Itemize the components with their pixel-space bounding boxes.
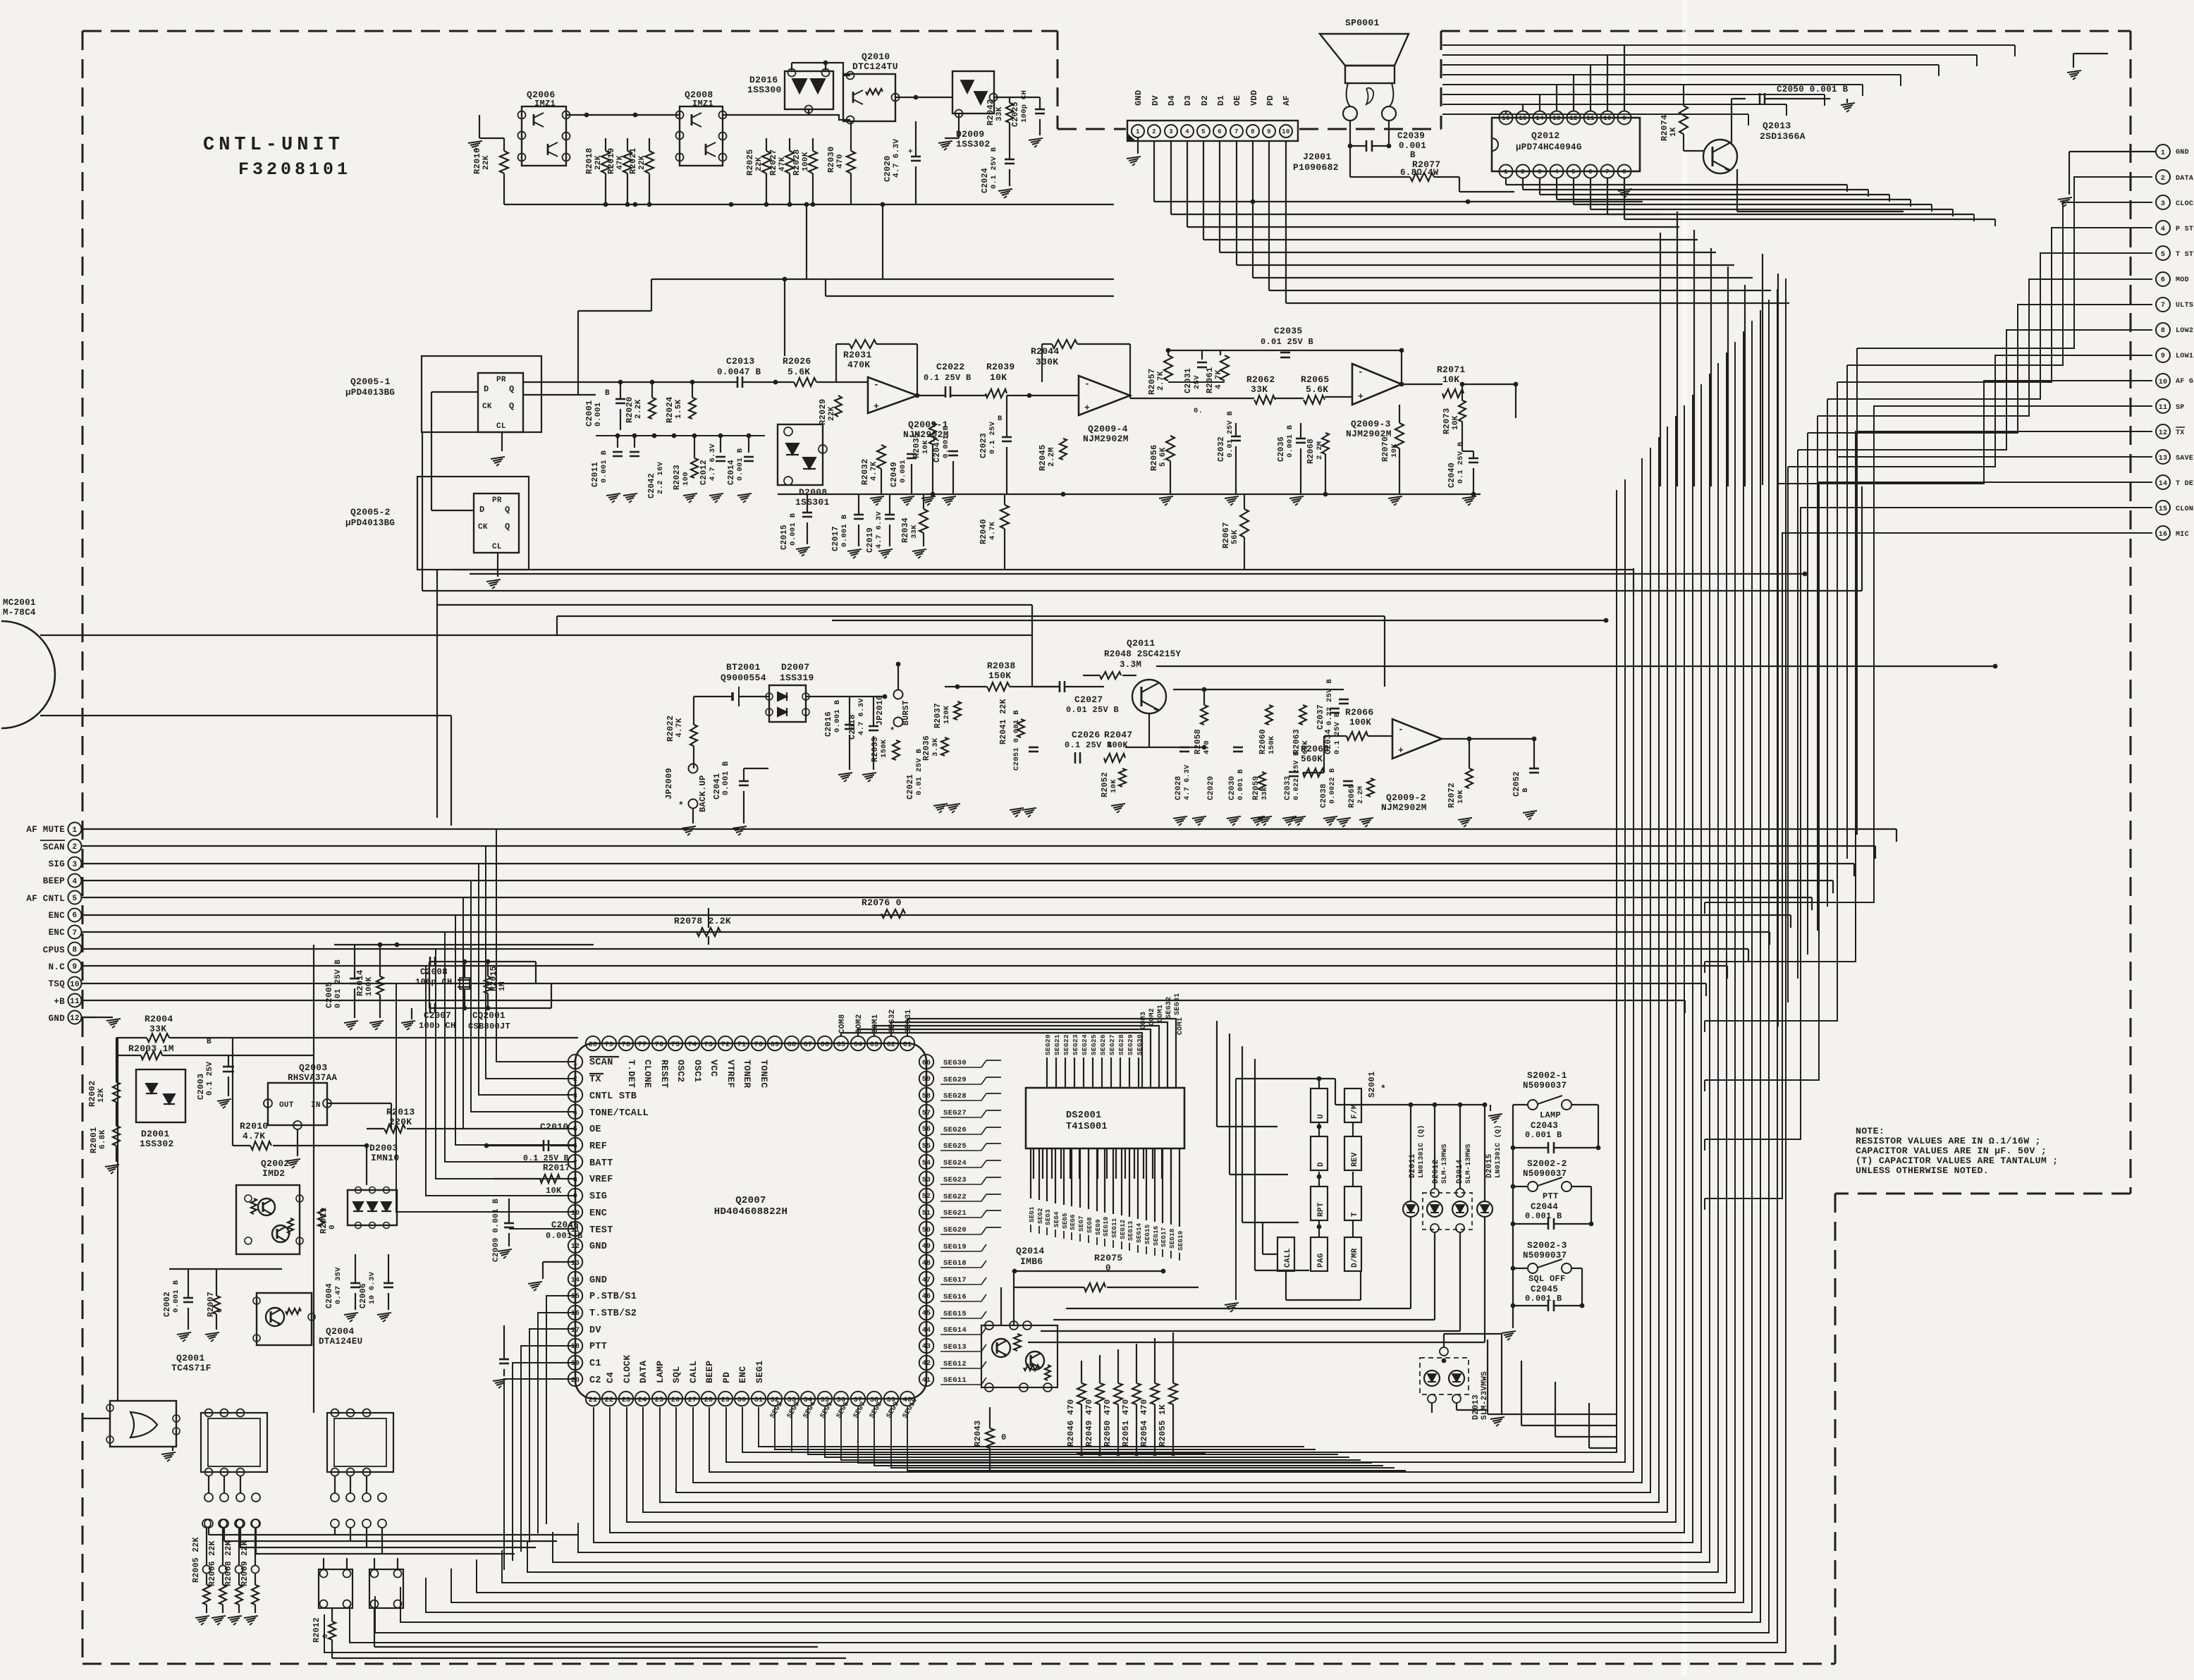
svg-text:D1: D1 (1216, 95, 1226, 106)
svg-text:R2067: R2067 (1221, 522, 1231, 548)
svg-text:D2013: D2013 (1471, 1394, 1481, 1420)
svg-text:R2012: R2012 (312, 1617, 321, 1643)
svg-text:GND: GND (1134, 90, 1144, 106)
svg-text:60: 60 (922, 1060, 931, 1067)
svg-text:MIC: MIC (2176, 531, 2189, 539)
svg-text:8: 8 (573, 1177, 577, 1184)
svg-text:13: 13 (1552, 115, 1560, 122)
svg-text:R2020: R2020 (625, 396, 635, 423)
svg-text:12: 12 (1569, 115, 1577, 122)
svg-text:5: 5 (2161, 251, 2165, 259)
svg-text:RESET: RESET (659, 1060, 670, 1089)
svg-text:+B: +B (54, 997, 65, 1007)
svg-text:SEG21: SEG21 (943, 1209, 967, 1218)
svg-text:CL: CL (492, 543, 502, 551)
svg-text:SEG16: SEG16 (943, 1293, 967, 1301)
svg-text:CAPACITOR VALUES ARE IN µF. 5: CAPACITOR VALUES ARE IN µF. 50V ; (1856, 1146, 2047, 1156)
svg-text:72: 72 (721, 1041, 730, 1049)
svg-text:SEG2: SEG2 (1037, 1208, 1044, 1224)
svg-text:69: 69 (771, 1041, 780, 1049)
svg-text:61: 61 (903, 1041, 912, 1049)
svg-text:Q2003: Q2003 (299, 1062, 328, 1073)
svg-text:OSC1: OSC1 (692, 1060, 703, 1082)
svg-text:R2027: R2027 (768, 149, 778, 176)
svg-text:6: 6 (573, 1143, 577, 1151)
svg-text:R2056: R2056 (1149, 444, 1159, 471)
svg-text:R2036: R2036 (922, 735, 931, 761)
svg-text:15: 15 (2159, 505, 2168, 513)
svg-text:C2021: C2021 (906, 774, 915, 799)
svg-text:13: 13 (2159, 455, 2168, 462)
svg-text:CL: CL (496, 422, 506, 431)
svg-text:R2063: R2063 (1292, 729, 1301, 754)
svg-text:R2034: R2034 (901, 517, 910, 543)
svg-text:1K: 1K (1669, 127, 1678, 137)
svg-text:LAMP: LAMP (655, 1361, 666, 1383)
svg-text:D4: D4 (1167, 95, 1177, 106)
svg-text:SEG20: SEG20 (1044, 1034, 1052, 1055)
svg-text:SEG14: SEG14 (1136, 1222, 1143, 1243)
svg-text:C2020: C2020 (883, 155, 893, 182)
svg-text:1SS301: 1SS301 (795, 497, 830, 508)
svg-text:4: 4 (2161, 226, 2165, 233)
svg-text:0.001 B: 0.001 B (546, 1231, 583, 1241)
svg-text:C1: C1 (589, 1359, 601, 1369)
svg-text:4.7 6.3V: 4.7 6.3V (709, 443, 717, 481)
svg-text:0: 0 (1001, 1433, 1007, 1442)
svg-text:SEG18: SEG18 (1169, 1228, 1176, 1249)
svg-text:N5090037: N5090037 (1523, 1251, 1567, 1261)
svg-text:SEG1: SEG1 (754, 1361, 765, 1383)
svg-text:CQ2001: CQ2001 (472, 1011, 505, 1021)
svg-text:ENC: ENC (589, 1208, 607, 1219)
svg-text:R2049 470: R2049 470 (1084, 1399, 1094, 1447)
svg-text:0.0022 B: 0.0022 B (1329, 768, 1337, 804)
svg-text:Q2005-1: Q2005-1 (350, 376, 391, 387)
svg-text:66: 66 (821, 1041, 830, 1049)
svg-text:SEG18: SEG18 (943, 1259, 967, 1268)
svg-text:SLM-13MWS: SLM-13MWS (1441, 1143, 1449, 1184)
svg-text:TX: TX (2176, 429, 2185, 437)
svg-text:IMD2: IMD2 (262, 1168, 285, 1179)
svg-text:C2014: C2014 (727, 460, 736, 485)
svg-text:C2035: C2035 (1274, 326, 1303, 336)
svg-text:R2072: R2072 (1447, 783, 1457, 808)
svg-text:0.001 B: 0.001 B (789, 513, 797, 546)
svg-text:R2019: R2019 (606, 147, 616, 174)
svg-text:0.001 B: 0.001 B (1286, 424, 1294, 458)
svg-text:Q2004: Q2004 (326, 1326, 355, 1337)
svg-text:10: 10 (1603, 115, 1611, 122)
svg-text:0.47 35V: 0.47 35V (334, 1267, 343, 1304)
svg-text:12: 12 (2159, 429, 2168, 437)
svg-text:9: 9 (1267, 128, 1271, 135)
svg-text:PTT: PTT (1543, 1191, 1559, 1201)
svg-text:R2052: R2052 (1101, 772, 1110, 797)
svg-text:SEG6: SEG6 (1070, 1214, 1077, 1230)
svg-text:20: 20 (571, 1377, 580, 1385)
svg-text:D3: D3 (1183, 95, 1193, 106)
svg-text:C2037: C2037 (1316, 704, 1325, 730)
svg-text:SP0001: SP0001 (1345, 18, 1380, 28)
svg-text:2.2M: 2.2M (1048, 447, 1056, 467)
svg-text:R2028: R2028 (792, 149, 802, 176)
svg-text:RPT: RPT (1317, 1202, 1325, 1217)
svg-text:0.001 B: 0.001 B (942, 425, 950, 458)
svg-text:SEG25: SEG25 (943, 1142, 967, 1151)
svg-text:ENC: ENC (49, 928, 66, 938)
svg-text:50: 50 (922, 1227, 931, 1234)
svg-text:R2013: R2013 (386, 1107, 415, 1117)
svg-text:1SS300: 1SS300 (747, 85, 782, 95)
svg-text:14: 14 (571, 1277, 580, 1284)
svg-text:R2022: R2022 (666, 715, 675, 742)
svg-text:46: 46 (922, 1293, 931, 1301)
svg-text:74: 74 (688, 1041, 697, 1049)
svg-text:7: 7 (573, 1160, 577, 1167)
svg-text:R2037: R2037 (933, 703, 943, 728)
svg-text:Q2012: Q2012 (1531, 130, 1560, 141)
svg-text:R2025: R2025 (745, 149, 755, 176)
svg-text:C2047: C2047 (933, 437, 942, 462)
svg-text:C2: C2 (589, 1375, 601, 1386)
svg-text:470K: 470K (847, 360, 870, 370)
svg-text:SEG15: SEG15 (1144, 1224, 1151, 1244)
svg-text:6: 6 (1588, 168, 1593, 176)
svg-text:C2027: C2027 (1074, 694, 1103, 705)
svg-text:70: 70 (754, 1041, 764, 1049)
svg-text:R2009 22K: R2009 22K (240, 1540, 250, 1586)
svg-text:CPUS: CPUS (43, 945, 65, 955)
svg-text:8: 8 (2161, 327, 2165, 335)
svg-text:Q2014: Q2014 (1016, 1246, 1045, 1256)
svg-text:SEG16: SEG16 (1153, 1225, 1160, 1246)
svg-text:100K: 100K (1349, 718, 1371, 728)
svg-text:22K: 22K (594, 155, 603, 170)
svg-text:SQL: SQL (671, 1366, 682, 1383)
svg-text:9: 9 (1622, 115, 1626, 122)
svg-text:9: 9 (73, 963, 78, 971)
svg-text:D2003: D2003 (369, 1143, 398, 1153)
svg-text:17: 17 (571, 1327, 580, 1335)
svg-text:T.STB/S2: T.STB/S2 (589, 1308, 637, 1319)
svg-text:C2031: C2031 (1184, 368, 1193, 393)
svg-text:BEEP: BEEP (704, 1361, 715, 1383)
svg-text:R2044: R2044 (1031, 346, 1060, 357)
svg-text:0.1 25V B: 0.1 25V B (990, 147, 998, 189)
svg-text:-: - (874, 379, 879, 390)
svg-text:3.3K: 3.3K (931, 737, 940, 756)
svg-text:CNTL-UNIT: CNTL-UNIT (203, 135, 344, 156)
svg-text:TONE/TCALL: TONE/TCALL (589, 1108, 649, 1119)
svg-text:LOW1: LOW1 (2176, 352, 2193, 360)
svg-text:SEG17: SEG17 (1160, 1227, 1168, 1247)
svg-text:DTA124EU: DTA124EU (319, 1337, 362, 1347)
svg-text:5: 5 (1201, 128, 1206, 135)
svg-text:73: 73 (704, 1041, 713, 1049)
svg-text:7: 7 (2161, 302, 2165, 309)
svg-text:R2050 470: R2050 470 (1103, 1399, 1113, 1447)
svg-text:R2062: R2062 (1246, 374, 1275, 385)
svg-text:0.1 25V: 0.1 25V (988, 421, 997, 454)
svg-text:3: 3 (1538, 168, 1542, 176)
svg-text:LN01301C (Q): LN01301C (Q) (1494, 1124, 1502, 1178)
svg-text:49: 49 (922, 1243, 931, 1251)
svg-text:DTC124TU: DTC124TU (852, 61, 898, 72)
svg-text:150K: 150K (880, 739, 888, 758)
svg-text:0.001: 0.001 (899, 460, 907, 483)
svg-text:R2055 1K: R2055 1K (1158, 1404, 1168, 1447)
svg-text:SEG13: SEG13 (943, 1343, 967, 1351)
svg-text:C2036: C2036 (1277, 436, 1286, 462)
svg-text:HD404608822H: HD404608822H (714, 1206, 787, 1218)
svg-text:GND: GND (589, 1241, 607, 1252)
svg-text:54: 54 (922, 1160, 931, 1167)
svg-text:VCC: VCC (709, 1060, 719, 1077)
svg-text:D/MR: D/MR (1351, 1248, 1359, 1268)
svg-text:SQL OFF: SQL OFF (1528, 1274, 1566, 1284)
svg-text:J2001: J2001 (1303, 152, 1332, 162)
svg-text:GND: GND (2176, 149, 2189, 157)
svg-text:D2007: D2007 (781, 662, 810, 673)
svg-text:10K: 10K (1457, 790, 1465, 804)
svg-text:SEG25: SEG25 (1090, 1034, 1098, 1055)
svg-text:1SS302: 1SS302 (140, 1139, 174, 1149)
svg-text:F3208101: F3208101 (238, 159, 351, 180)
svg-text:4: 4 (1555, 168, 1559, 176)
svg-text:0.001 B: 0.001 B (1525, 1130, 1562, 1140)
svg-text:VTREF: VTREF (725, 1060, 736, 1089)
svg-text:3.3M: 3.3M (1120, 660, 1141, 670)
svg-text:0.1 25V: 0.1 25V (206, 1062, 214, 1096)
svg-text:64: 64 (854, 1041, 863, 1049)
svg-text:0.001 B: 0.001 B (600, 450, 608, 483)
svg-text:P.STB/S1: P.STB/S1 (589, 1292, 637, 1302)
svg-text:PD: PD (721, 1372, 732, 1383)
svg-text:0: 0 (329, 1225, 337, 1230)
svg-text:DATA: DATA (2176, 175, 2193, 183)
svg-text:D2009: D2009 (956, 129, 985, 140)
svg-text:COM2: COM2 (1148, 1008, 1156, 1026)
svg-text:C2022: C2022 (936, 362, 965, 372)
svg-text:68: 68 (787, 1041, 797, 1049)
svg-text:D2001: D2001 (141, 1129, 170, 1139)
svg-text:SEG3: SEG3 (1045, 1209, 1052, 1225)
svg-text:SEG32: SEG32 (1165, 996, 1173, 1019)
svg-text:R2065: R2065 (1301, 374, 1330, 385)
svg-text:57: 57 (922, 1110, 931, 1117)
svg-text:7: 7 (1605, 168, 1610, 176)
svg-text:Q2010: Q2010 (862, 51, 890, 62)
svg-text:-: - (1398, 724, 1404, 735)
svg-text:*: * (890, 726, 895, 736)
svg-text:0.001 B: 0.001 B (722, 761, 730, 795)
svg-text:SEG31: SEG31 (1174, 993, 1182, 1015)
svg-text:63: 63 (870, 1041, 879, 1049)
svg-text:AF MUTE: AF MUTE (26, 825, 65, 835)
svg-text:5: 5 (73, 895, 78, 903)
svg-text:R2048 2SC4215Y: R2048 2SC4215Y (1104, 649, 1181, 659)
svg-text:0.001: 0.001 (594, 402, 603, 427)
svg-text:T: T (1351, 1212, 1359, 1217)
svg-text:ENC: ENC (49, 911, 66, 921)
svg-text:4: 4 (73, 878, 78, 886)
svg-text:COM3: COM3 (1140, 1012, 1148, 1029)
svg-text:B: B (207, 1038, 212, 1046)
svg-text:2.2K: 2.2K (635, 399, 643, 419)
svg-text:6: 6 (1218, 128, 1222, 135)
svg-text:CLOCK: CLOCK (622, 1354, 632, 1383)
svg-text:56: 56 (922, 1126, 931, 1134)
svg-text:78: 78 (622, 1041, 631, 1049)
svg-text:7: 7 (73, 929, 78, 938)
svg-text:SEG9: SEG9 (1095, 1219, 1102, 1235)
svg-text:R2001: R2001 (89, 1127, 99, 1153)
svg-text:+: + (1358, 391, 1363, 402)
svg-text:C2009 0.001 B: C2009 0.001 B (492, 1198, 501, 1262)
svg-text:N5090037: N5090037 (1523, 1081, 1567, 1091)
svg-text:6: 6 (73, 912, 78, 920)
svg-text:R2021: R2021 (628, 147, 638, 174)
svg-text:C2042: C2042 (647, 473, 656, 498)
svg-text:4: 4 (573, 1110, 577, 1117)
svg-text:VREF: VREF (589, 1175, 613, 1185)
svg-text:D2011: D2011 (1409, 1153, 1417, 1178)
svg-text:SEG14: SEG14 (943, 1326, 967, 1335)
svg-text:C2013: C2013 (726, 356, 755, 367)
svg-text:Q2002: Q2002 (261, 1158, 290, 1169)
svg-text:100K: 100K (802, 152, 810, 171)
svg-text:R2041 22K: R2041 22K (999, 699, 1008, 744)
svg-text:1M: 1M (498, 981, 507, 991)
svg-text:AF: AF (1282, 95, 1292, 106)
svg-text:PD: PD (1265, 95, 1275, 106)
svg-text:TX: TX (589, 1074, 601, 1085)
svg-text:D: D (479, 505, 485, 515)
svg-text:MC2001: MC2001 (3, 598, 36, 608)
svg-text:C2029: C2029 (1207, 775, 1215, 800)
svg-text:C2033: C2033 (1284, 775, 1292, 800)
svg-text:1: 1 (2161, 149, 2165, 157)
svg-text:CLONE: CLONE (642, 1060, 653, 1089)
svg-text:LAMP: LAMP (1540, 1110, 1561, 1120)
svg-text:3: 3 (1169, 128, 1173, 135)
svg-text:0.1 25V B: 0.1 25V B (924, 373, 972, 383)
svg-text:1: 1 (1136, 128, 1140, 135)
svg-text:1: 1 (573, 1060, 577, 1067)
svg-text:33K: 33K (910, 525, 919, 539)
svg-text:10K: 10K (1442, 374, 1459, 385)
svg-text:COM1: COM1 (871, 1014, 880, 1034)
svg-text:0.: 0. (1194, 407, 1203, 415)
svg-text:R2068: R2068 (1306, 439, 1316, 464)
svg-text:T41S001: T41S001 (1066, 1122, 1108, 1132)
svg-text:C2015: C2015 (780, 525, 789, 550)
svg-text:R2008 22K: R2008 22K (224, 1540, 233, 1586)
svg-text:3: 3 (2161, 200, 2165, 208)
svg-text:Q9000554: Q9000554 (721, 673, 766, 683)
svg-text:R2005 22K: R2005 22K (192, 1537, 201, 1583)
svg-text:23: 23 (622, 1397, 631, 1404)
svg-text:C2028: C2028 (1175, 775, 1183, 800)
svg-text:ULTS: ULTS (2176, 302, 2193, 309)
svg-text:R2029: R2029 (818, 398, 828, 425)
svg-text:JP2009: JP2009 (664, 768, 674, 799)
svg-text:Q2001: Q2001 (176, 1353, 205, 1363)
svg-text:100K: 100K (365, 976, 374, 996)
svg-text:CK: CK (482, 403, 492, 411)
svg-text:R2004: R2004 (145, 1014, 173, 1024)
svg-text:SEG23: SEG23 (943, 1176, 967, 1184)
svg-text:10K: 10K (990, 372, 1007, 383)
svg-text:55: 55 (922, 1143, 931, 1151)
svg-text:NOTE:: NOTE: (1856, 1126, 1884, 1136)
svg-text:S2002-2: S2002-2 (1527, 1158, 1567, 1169)
svg-text:Q: Q (505, 505, 510, 515)
svg-text:C2018: C2018 (848, 714, 857, 740)
svg-text:4.7K: 4.7K (870, 461, 878, 481)
svg-text:43: 43 (922, 1343, 931, 1351)
svg-text:51: 51 (922, 1210, 931, 1218)
svg-text:CSB800JT: CSB800JT (468, 1022, 510, 1031)
svg-text:C2002: C2002 (163, 1292, 172, 1317)
svg-text:77: 77 (638, 1041, 647, 1049)
svg-text:R2033: R2033 (871, 737, 880, 762)
svg-text:SEG4: SEG4 (1053, 1211, 1060, 1227)
svg-text:R2047: R2047 (1104, 730, 1133, 740)
svg-text:0.1 25V B: 0.1 25V B (1333, 712, 1342, 754)
svg-text:B: B (1410, 150, 1416, 160)
svg-text:TEST: TEST (589, 1225, 613, 1236)
svg-text:19: 19 (571, 1360, 580, 1368)
svg-text:SEG13: SEG13 (1127, 1220, 1134, 1241)
svg-text:R2030: R2030 (826, 146, 836, 173)
svg-text:4.7 6.3V: 4.7 6.3V (1184, 765, 1191, 800)
svg-text:R2018: R2018 (584, 147, 594, 174)
svg-text:+: + (908, 148, 913, 157)
svg-text:R2058: R2058 (1194, 729, 1203, 754)
svg-text:560K: 560K (1301, 754, 1323, 764)
svg-text:3: 3 (73, 861, 78, 869)
svg-text:SEG29: SEG29 (1127, 1034, 1134, 1055)
svg-text:SP: SP (2176, 404, 2185, 412)
svg-text:µPD74HC4094G: µPD74HC4094G (1516, 142, 1582, 152)
svg-text:120K: 120K (943, 705, 951, 724)
svg-text:U: U (1317, 1114, 1325, 1119)
svg-text:10K: 10K (921, 440, 930, 454)
svg-text:GND: GND (589, 1275, 607, 1286)
svg-text:SEG20: SEG20 (943, 1226, 967, 1234)
svg-text:NJM2902M: NJM2902M (1381, 802, 1427, 813)
svg-text:R2003 1M: R2003 1M (128, 1043, 174, 1054)
svg-text:NJM2902M: NJM2902M (1083, 434, 1129, 444)
svg-text:RHSVA37AA: RHSVA37AA (288, 1073, 337, 1083)
svg-text:C2012: C2012 (699, 460, 709, 485)
svg-text:71: 71 (737, 1041, 747, 1049)
svg-text:C2011: C2011 (591, 462, 600, 487)
svg-text:JP2010: JP2010 (876, 695, 885, 725)
svg-text:C2010: C2010 (540, 1122, 569, 1132)
svg-text:S2002-1: S2002-1 (1527, 1070, 1567, 1081)
svg-text:4.7 6.3V: 4.7 6.3V (893, 139, 901, 178)
svg-text:C2026: C2026 (1072, 730, 1101, 740)
svg-text:C4: C4 (605, 1372, 615, 1383)
svg-text:28: 28 (704, 1397, 713, 1404)
svg-text:R2057: R2057 (1147, 368, 1157, 395)
svg-text:CNTL STB: CNTL STB (589, 1091, 637, 1102)
svg-text:SEG27: SEG27 (943, 1109, 967, 1117)
svg-text:BACK.UP: BACK.UP (698, 775, 708, 812)
